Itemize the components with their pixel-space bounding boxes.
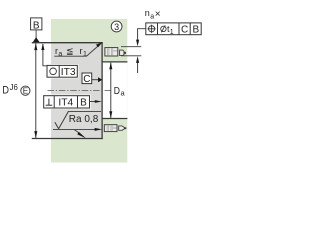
t1 lower arrow stem — [137, 60, 139, 74]
svg-text:3: 3 — [114, 22, 119, 32]
svg-text:B: B — [33, 20, 40, 31]
datum B box — [31, 18, 42, 31]
svg-text:D: D — [114, 86, 120, 97]
t1 extension line lower — [121, 55, 141, 57]
svg-text:J6: J6 — [10, 82, 18, 92]
arrow of [O|IT3] leader — [41, 43, 44, 50]
leader from position frame — [138, 29, 146, 43]
Ra diagonal arrow to bottom raceway — [75, 130, 81, 134]
shaft right shoulder face edge — [101, 42, 103, 139]
reference line under r_a label — [54, 55, 86, 57]
bottom roller end cone — [119, 126, 127, 130]
roundness frame [O|IT3] — [46, 64, 79, 78]
Da dimension line — [110, 63, 112, 119]
arrow at shoulder face — [95, 100, 102, 103]
svg-text:IT3: IT3 — [61, 67, 76, 78]
svg-text:×: × — [155, 9, 161, 20]
top needle roller body — [105, 48, 118, 56]
svg-text:n: n — [145, 8, 150, 18]
svg-text:C: C — [181, 24, 188, 35]
step surface line upper (Da top) — [102, 61, 127, 63]
svg-text:C: C — [83, 74, 90, 85]
svg-text:B: B — [80, 98, 87, 109]
arrow at corner — [96, 42, 103, 47]
leader diagonal to top corner — [87, 46, 99, 57]
svg-text:D: D — [2, 85, 9, 97]
centerline (dash-dot) — [48, 90, 113, 92]
diameter t1 — [161, 26, 166, 31]
top roller end pin — [120, 50, 126, 56]
label r_a <= r_1 — [55, 46, 87, 58]
leader of [O|IT3] to top raceway — [43, 44, 47, 66]
circled footnote 3 — [111, 21, 122, 32]
label n_a x — [145, 8, 161, 20]
datum C triangle on shoulder face — [98, 77, 102, 82]
D dimension line (vertical, left) — [35, 44, 37, 139]
Ra leader horizontal with arrow to shoulder — [53, 128, 96, 130]
svg-text:Ra 0,8: Ra 0,8 — [69, 114, 99, 125]
green figure panel — [51, 19, 127, 163]
D dimension arrow down — [34, 131, 37, 138]
arrow up on t1 lower extension line — [136, 56, 139, 63]
svg-text:a: a — [58, 51, 62, 58]
Da arrow up — [109, 62, 112, 69]
svg-text:1: 1 — [170, 29, 174, 36]
label Da — [114, 86, 126, 98]
Da arrow down — [109, 111, 112, 118]
datum C leader — [92, 79, 99, 81]
arrow down on t1 upper extension line — [136, 40, 139, 47]
surface roughness symbol Ra 0,8 — [55, 112, 101, 129]
svg-text:≦: ≦ — [66, 46, 74, 56]
perpendicularity frame [T|IT4|B] — [43, 95, 91, 110]
D dimension arrow up — [34, 43, 37, 50]
datum C box — [82, 73, 92, 85]
shaft body cross-section (gray) — [51, 42, 102, 139]
shaft top raceway surface line with left extension — [32, 42, 103, 44]
svg-text:E: E — [23, 87, 28, 96]
step surface line lower (Da bottom) — [102, 118, 127, 120]
leader of perpendicularity frame to shoulder — [90, 101, 98, 103]
svg-text:B: B — [192, 24, 199, 35]
bottom needle roller body — [104, 125, 117, 132]
datum B triangle — [33, 37, 40, 42]
t1 extension line upper — [121, 46, 141, 48]
shaft bottom raceway surface line with left extension — [32, 138, 103, 140]
datum B stem — [35, 30, 37, 38]
svg-text:a: a — [150, 13, 154, 20]
svg-text:IT4: IT4 — [58, 98, 73, 109]
white cut-out region right of shaft (Da area) — [103, 62, 128, 118]
svg-text:1: 1 — [83, 51, 87, 58]
position symbol — [149, 26, 155, 32]
position tolerance frame [pos|Ot1|C|B] — [146, 23, 201, 36]
label D J6 (E) — [2, 82, 30, 96]
